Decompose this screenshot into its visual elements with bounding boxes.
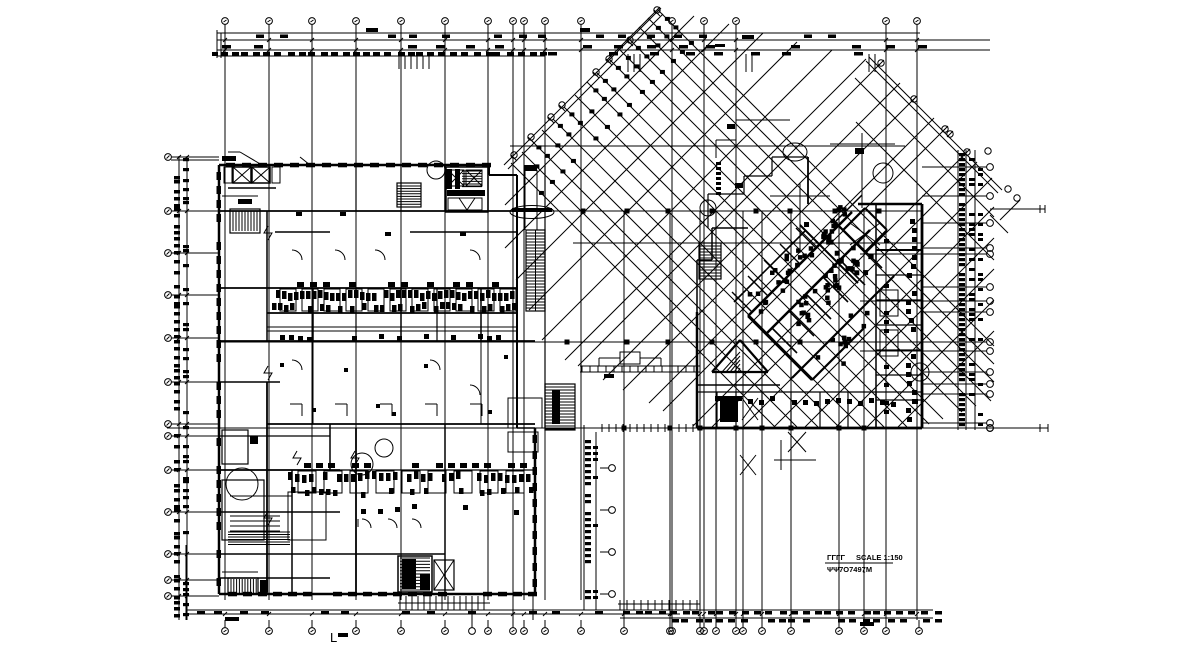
shaft cluster bottom-centre <box>398 556 454 592</box>
ramp lines and door arcs lower <box>230 516 421 531</box>
rooms bottom-left <box>222 430 393 545</box>
plaza entrance steps <box>580 352 700 378</box>
left building horizontal walls <box>219 211 535 578</box>
tower core diagonal walls <box>732 195 894 380</box>
tick row west of tower base <box>602 424 693 432</box>
label L bottom <box>330 630 348 645</box>
extra grid bubbles top right <box>990 186 1020 233</box>
fixture band upper corridor <box>272 282 517 342</box>
stair bottom-left <box>222 572 268 594</box>
entrance steps bottom <box>398 596 490 610</box>
horizontal grid lines <box>167 146 1048 432</box>
rotated grid dimension line A <box>504 8 663 169</box>
svg-text:ΨΨ7Ο7497Μ: ΨΨ7Ο7497Μ <box>827 565 872 574</box>
stair and elevator cluster centre-top <box>397 161 488 212</box>
top dimension band <box>212 28 990 58</box>
section marks tower top <box>770 133 895 250</box>
rotated grid mesh <box>505 7 994 427</box>
leader marks top-left <box>222 152 310 165</box>
right dimension band <box>922 150 993 431</box>
tower door arc circles <box>700 143 929 381</box>
tower elevator diamond <box>843 208 887 252</box>
door swings left building <box>292 212 480 395</box>
entrance ellipse node <box>510 206 554 219</box>
break marks <box>264 226 359 525</box>
vertical grid lines lower <box>513 211 864 620</box>
tower stepped north-west wall <box>697 157 808 312</box>
tower outer walls <box>697 204 922 428</box>
rotated grid bubbles edge B <box>878 60 991 155</box>
bottom dimension band <box>186 545 942 626</box>
svg-text:L: L <box>330 630 337 645</box>
left dimension band <box>165 154 219 620</box>
svg-text:ΓΓΓΓ: ΓΓΓΓ <box>827 553 846 562</box>
tower stair west <box>699 243 721 279</box>
room detail marks middle <box>280 355 508 416</box>
grid node dots <box>565 209 882 431</box>
elevator shafts top-left <box>224 167 280 188</box>
vertical grid lines <box>225 56 917 620</box>
stair cluster centre lower <box>508 384 575 452</box>
fixture band lower corridor <box>288 463 534 515</box>
top band witness stubs <box>225 54 875 72</box>
tower south room band <box>697 392 922 428</box>
svg-text:SCALE 1:150: SCALE 1:150 <box>856 553 903 562</box>
tower triangle room <box>712 340 768 372</box>
column grid bubbles bottom <box>222 610 923 634</box>
mesh dimension blobs <box>534 17 694 195</box>
stair top-left <box>222 196 260 233</box>
tower core fixtures <box>748 205 874 366</box>
column grid bubbles top <box>222 18 921 56</box>
title block <box>825 553 903 574</box>
left building vertical walls <box>267 165 488 594</box>
plaza vertical dimension string <box>584 425 615 610</box>
cross braces below tower <box>740 432 816 475</box>
rotated grid bubbles edge A <box>511 7 660 158</box>
rotated grid dimension line B <box>866 57 1002 193</box>
window dashes outer walls <box>217 163 538 597</box>
left building outer walls <box>219 165 535 594</box>
tower roof step detail <box>716 120 790 158</box>
escalator centre strip <box>524 165 545 428</box>
tower east room column <box>876 204 922 428</box>
